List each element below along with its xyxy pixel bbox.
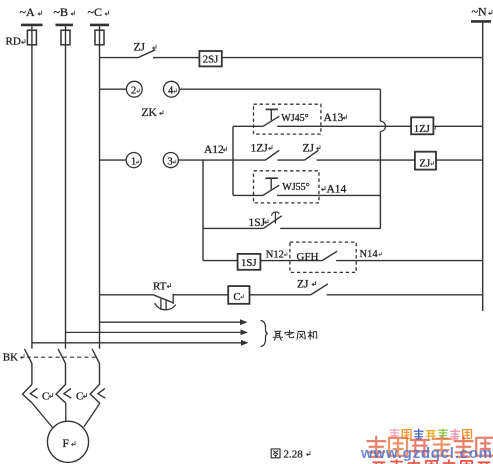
switch BK linkage dashed — [27, 356, 96, 358]
wire row8 left — [100, 294, 154, 296]
svg-text:1ZJ: 1ZJ — [251, 142, 269, 154]
fuse RD phase C — [95, 30, 104, 45]
contactor main contact C pole C — [90, 384, 100, 403]
terminal circle 1 — [126, 153, 141, 168]
wire row2 left — [100, 88, 127, 90]
svg-text:GFH: GFH — [297, 251, 319, 263]
svg-text:A12: A12 — [204, 144, 224, 156]
wire arrow feeder from A — [32, 342, 242, 344]
wire row5 right — [277, 194, 380, 196]
wire branch vertical x203 — [202, 160, 204, 261]
relay coil 1ZJ — [411, 117, 433, 134]
wire lower B — [65, 363, 67, 384]
svg-text:~N: ~N — [472, 5, 487, 19]
caption fig 2.28 — [271, 449, 280, 458]
brace other fans — [261, 320, 268, 346]
fuse RD phase B — [61, 30, 70, 45]
svg-text:C: C — [42, 391, 49, 403]
motor F — [47, 421, 88, 462]
node ~N terminal bar — [471, 20, 491, 23]
wire row5 left — [233, 194, 263, 196]
wire row7 left — [203, 260, 238, 262]
svg-text:WJ55°: WJ55° — [282, 182, 309, 193]
wire row7 mid — [260, 260, 322, 262]
wire neutral N vertical — [482, 23, 484, 295]
wire phase C vertical — [99, 26, 101, 348]
contact GFH (NO) — [322, 251, 337, 260]
svg-text:www.gzdqcl.com: www.gzdqcl.com — [360, 445, 492, 462]
node ~B terminal bar — [56, 24, 74, 27]
wire row6 left — [203, 227, 263, 229]
wire row1 mid — [153, 57, 199, 59]
thermal switch WJ45 dashed box — [254, 104, 321, 134]
watermark logo — [360, 429, 493, 464]
contact WJ45 (temperature, NO) — [263, 116, 279, 126]
wire motor lead A — [32, 403, 52, 427]
contact 1SJ (time-delay, NO) — [263, 216, 281, 229]
svg-text:ZJ: ZJ — [303, 142, 315, 154]
fuse RD phase A — [27, 30, 36, 45]
wire row3 right — [433, 125, 482, 127]
label qita fengji (other fans) — [273, 331, 283, 340]
wire row7 right — [336, 260, 483, 262]
svg-text:2.28: 2.28 — [284, 448, 304, 460]
contact ZJ (mid, NO) — [305, 150, 319, 160]
svg-text:F: F — [63, 438, 69, 450]
switch BK pole B — [58, 349, 65, 364]
svg-text:C: C — [76, 391, 83, 403]
svg-text:ZK: ZK — [142, 107, 158, 119]
svg-text:~C: ~C — [88, 5, 103, 19]
contact ZJ (top, NO) — [138, 50, 155, 58]
wire row8 right — [327, 294, 483, 296]
svg-text:WJ45°: WJ45° — [281, 113, 308, 124]
wire arrow feeder from C — [100, 321, 242, 323]
svg-text:A14: A14 — [327, 184, 347, 196]
wire row4 mid2 — [277, 159, 304, 161]
wire row2 right — [179, 88, 380, 90]
svg-text:ZJ: ZJ — [297, 278, 309, 290]
svg-text:3: 3 — [167, 156, 172, 167]
svg-text:A13: A13 — [324, 112, 344, 124]
wire branch vertical x233 — [232, 126, 234, 195]
wire motor lead C — [84, 403, 100, 427]
relay coil 2SJ — [199, 51, 221, 66]
contact ZJ (bottom, NO) — [311, 284, 328, 295]
wire lower A — [31, 363, 33, 384]
contact WJ55 (temperature, NO) — [263, 185, 279, 195]
svg-text:C: C — [233, 291, 240, 303]
wire row1 right — [222, 57, 483, 59]
svg-text:1SJ: 1SJ — [249, 217, 266, 229]
relay coil 1SJ — [238, 254, 261, 270]
contact 1ZJ (NO) — [266, 150, 280, 160]
switch BK pole A — [25, 349, 32, 364]
svg-text:2: 2 — [131, 85, 136, 96]
svg-text:~A: ~A — [20, 5, 35, 19]
svg-text:ZJ: ZJ — [419, 157, 430, 169]
svg-text:~B: ~B — [54, 5, 69, 19]
contactor main contact C pole A — [23, 384, 33, 403]
thermal switch WJ55 dashed box — [254, 171, 320, 203]
wire row8 mid2 — [250, 294, 311, 296]
svg-text:2SJ: 2SJ — [203, 54, 219, 66]
svg-text:RD: RD — [6, 36, 21, 48]
svg-text:1SJ: 1SJ — [241, 257, 257, 269]
terminal circle 2 — [126, 81, 142, 97]
svg-text:RT: RT — [153, 280, 167, 292]
wire row3 mid — [277, 125, 411, 127]
svg-text:BK: BK — [3, 352, 18, 364]
wire phase A vertical — [31, 26, 33, 348]
svg-text:1ZJ: 1ZJ — [414, 123, 430, 135]
svg-text:N14: N14 — [360, 249, 379, 260]
wire row6 right — [280, 227, 380, 229]
wire row4 far right — [436, 159, 483, 161]
wire right loop vertical x380 — [379, 89, 381, 121]
wire row8 mid1 — [173, 294, 228, 296]
svg-text:N12: N12 — [266, 250, 284, 261]
thermal relay RT (NC contact) — [153, 295, 173, 303]
wire row3 left — [233, 125, 263, 127]
terminal circle 3 — [163, 153, 178, 168]
svg-text:4: 4 — [168, 85, 174, 96]
wire row4 right — [317, 159, 415, 161]
sensor GFH dashed box — [290, 242, 356, 272]
contactor main contact C pole B — [56, 384, 66, 403]
wire row4 left — [100, 159, 127, 161]
contactor coil C — [228, 286, 249, 304]
node A14 label — [321, 186, 325, 191]
wire row4 mid — [178, 159, 265, 161]
wire phase B vertical — [65, 26, 67, 348]
relay coil ZJ — [415, 152, 436, 170]
wire arrow feeder from B — [66, 331, 242, 333]
node ~A terminal bar — [21, 24, 43, 27]
terminal circle 4 — [164, 81, 180, 97]
svg-text:ZJ: ZJ — [134, 42, 146, 54]
wire lower C — [99, 363, 101, 384]
svg-text:1: 1 — [131, 156, 136, 167]
switch BK pole C — [92, 349, 99, 364]
wire motor lead B — [65, 403, 67, 421]
wire row1 left — [100, 57, 139, 59]
node ~C terminal bar — [90, 24, 109, 27]
